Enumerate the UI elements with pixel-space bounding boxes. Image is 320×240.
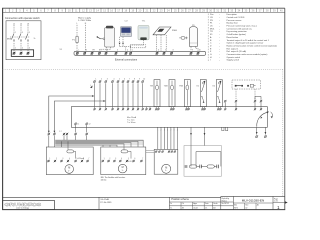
- svg-text:5: 5: [132, 50, 133, 52]
- svg-text:L: L: [78, 50, 79, 52]
- wire N (dashed mains drop): [85, 23, 87, 51]
- svg-text:Rev: Rev: [245, 204, 248, 206]
- module TM: [150, 80, 160, 107]
- svg-text:6: 6: [158, 50, 159, 52]
- pump unit box A: [46, 147, 93, 175]
- remote control MI301: [138, 20, 149, 40]
- bypass loop wire: [196, 152, 221, 167]
- fuse F1: [72, 37, 78, 43]
- controller output pin labels: [157, 130, 178, 132]
- terminal strip name X1: [60, 49, 63, 51]
- svg-text:2: 2: [15, 48, 16, 50]
- svg-text:No 96752: No 96752: [222, 203, 229, 205]
- wires contact box to controller (dashed): [236, 89, 255, 100]
- svg-text:CU: CU: [210, 17, 213, 19]
- svg-text:Ref. output 1: Ref. output 1: [227, 47, 240, 50]
- sensor cable terminals: [48, 131, 89, 135]
- mains in arrow node: [90, 85, 93, 88]
- thermal sensor capsule in box A: [67, 147, 76, 159]
- svg-text:5: 5: [128, 158, 129, 160]
- svg-text:11: 11: [77, 124, 79, 126]
- svg-text:5: 5: [29, 32, 30, 34]
- svg-text:Reset button: Reset button: [227, 36, 239, 39]
- svg-text:M: M: [68, 167, 70, 170]
- svg-text:04-02: 04-02: [193, 207, 197, 209]
- wires R100 to strip (dashed): [157, 35, 167, 51]
- position scheme cell: [169, 198, 233, 209]
- svg-text:Position scheme: Position scheme: [171, 198, 189, 201]
- jumper link: [255, 96, 261, 99]
- svg-text:2: 2: [109, 158, 110, 160]
- svg-text:9: 9: [192, 50, 193, 52]
- svg-text:A1: A1: [257, 203, 259, 206]
- controller top edge pin terminals: [93, 107, 262, 111]
- svg-text:M: M: [165, 166, 167, 169]
- svg-text:Connection with operate switch: Connection with operate switch: [5, 17, 40, 20]
- svg-text:3: 3: [62, 158, 63, 160]
- terminals on X1: [76, 52, 199, 55]
- module K1: [197, 80, 207, 107]
- module K2: [213, 80, 223, 107]
- title block frame: [2, 196, 285, 209]
- svg-text:Pressure sensor: Pressure sensor: [227, 19, 242, 22]
- project cell: [100, 199, 112, 204]
- svg-text:4: 4: [69, 158, 70, 160]
- terminals below contact box: [224, 100, 262, 107]
- svg-text:4: 4: [121, 158, 122, 160]
- svg-text:3: 3: [115, 158, 116, 160]
- svg-text:Description: Description: [227, 13, 237, 16]
- svg-text:4: 4: [22, 48, 23, 50]
- svg-text:12: 12: [89, 124, 91, 126]
- terminal row labels: [95, 79, 145, 81]
- output wires to pressure sensor terminals: [255, 128, 266, 138]
- svg-text:water technology: water technology: [16, 206, 29, 209]
- svg-text:2: 2: [56, 158, 57, 160]
- text: Max 20 mA settings: [127, 116, 137, 124]
- drops from terminals into band: [49, 135, 87, 147]
- svg-text:A3: A3: [213, 206, 215, 209]
- svg-text:M: M: [122, 166, 124, 169]
- cabinet boundary (dashed separator): [3, 68, 284, 70]
- level switch LS with tank: [97, 26, 115, 47]
- svg-text:1 2: 1 2: [59, 131, 62, 133]
- svg-text:6: 6: [134, 158, 135, 160]
- svg-text:Backup fuse: Backup fuse: [227, 23, 239, 25]
- vertical wires from input row to controller: [95, 83, 143, 106]
- svg-text:Date: Date: [205, 202, 209, 205]
- svg-text:Communication radio sensor mod: Communication radio sensor module (optio…: [227, 53, 268, 56]
- PE lugs under controller: [222, 127, 228, 130]
- page cell: [273, 198, 288, 210]
- svg-text:1~230V 50Hz: 1~230V 50Hz: [78, 20, 91, 22]
- link wires B to C: [146, 151, 154, 153]
- wire L (dashed mains drop): [76, 23, 78, 51]
- cable plug to sensor: [179, 37, 187, 40]
- svg-text:2: 2: [107, 50, 108, 52]
- svg-text:MOL: MOL: [7, 39, 13, 41]
- svg-text:3: 3: [22, 32, 23, 34]
- operate switch enclosure box: [6, 21, 41, 60]
- wire W1 (L branch to pump A): [48, 95, 95, 133]
- svg-text:4-20: 4-20: [128, 161, 132, 163]
- revision cell: [222, 198, 230, 205]
- wires sensor to strip (dashed): [191, 47, 198, 52]
- thermal sensor capsule in box B: [121, 147, 131, 159]
- svg-text:GRUNDFOS: GRUNDFOS: [5, 202, 42, 207]
- svg-text:1: 1: [15, 32, 16, 34]
- wire W2 (N branch to pump A): [54, 100, 106, 133]
- svg-text:Pressure switch (tap valve, ma: Pressure switch (tap valve, max.): [227, 25, 257, 28]
- svg-text:1:1: 1:1: [205, 207, 207, 209]
- svg-text:7: 7: [88, 158, 89, 160]
- box B terminals: [102, 160, 143, 163]
- cabinet boundary right (dashed vertical): [282, 69, 284, 197]
- terminal strip X1 (external connections): [74, 51, 206, 55]
- terminal block X0 of operate switch: [11, 50, 33, 57]
- svg-text:(30 m): (30 m): [101, 179, 107, 181]
- pressure sensor B1 (cylinder): [189, 25, 197, 47]
- svg-text:Terminal output 4 to 20 mA of: Terminal output 4 to 20 mA of the contro…: [227, 39, 270, 42]
- label: Mains supply 1~230V 50Hz: [78, 18, 92, 22]
- controller internal output terminals: [74, 123, 90, 133]
- control unit CU300: [120, 20, 131, 36]
- wire remote to strip (dashed): [130, 40, 146, 48]
- svg-text:Option 1: diaphragm tank again: Option 1: diaphragm tank against sensor: [227, 42, 264, 45]
- motor plug chain: [185, 165, 219, 169]
- note text NB: [101, 176, 125, 181]
- svg-text:MLV-011030-EN: MLV-011030-EN: [242, 198, 264, 202]
- svg-text:Control unit CU 301: Control unit CU 301: [227, 16, 246, 19]
- module TM3: [179, 80, 190, 107]
- box A terminals: [47, 160, 89, 163]
- motor M3: [162, 164, 171, 173]
- drawing frame right border: [284, 8, 286, 209]
- label: Connection with operate switch: [5, 17, 40, 20]
- svg-text:External connections: External connections: [115, 59, 138, 62]
- svg-text:1: 1: [104, 158, 105, 160]
- drawing frame left border: [2, 8, 4, 209]
- svg-text:1 of 1: 1 of 1: [274, 201, 278, 203]
- drawing frame bottom border: [2, 209, 285, 211]
- svg-text:Radio communication remote con: Radio communication remote control recei…: [227, 45, 278, 48]
- remote control R100: [153, 27, 178, 35]
- svg-text:Ti = 30sec: Ti = 30sec: [127, 122, 136, 124]
- svg-text:TM: TM: [150, 86, 153, 88]
- svg-text:Connection with operate sw.: Connection with operate sw.: [227, 27, 253, 30]
- wire into plug chain: [190, 146, 192, 167]
- wires CU to strip (dashed with arrows): [120, 37, 131, 51]
- pump unit box C: [154, 149, 178, 174]
- svg-text:Ch: Ch: [182, 203, 184, 205]
- legend list: [208, 13, 277, 62]
- module TM2: [164, 80, 175, 107]
- svg-text:4: 4: [127, 50, 128, 52]
- screened cable bundle: [55, 140, 143, 147]
- svg-text:Appr: Appr: [193, 202, 197, 205]
- wires to drop cable D: [190, 127, 205, 145]
- svg-text:On/off button (option): On/off button (option): [227, 33, 247, 36]
- terminals in X0: [13, 52, 30, 55]
- svg-text:Pos: Pos: [210, 14, 214, 16]
- zone reference strip: [2, 8, 285, 12]
- svg-text:02: 02: [245, 208, 247, 210]
- motor M2: [118, 164, 127, 173]
- logo box: [3, 201, 55, 210]
- wires to motor box C: [158, 127, 178, 149]
- svg-text:3: 3: [117, 50, 118, 52]
- wire from level switch to strip (dashed): [99, 47, 110, 51]
- svg-text:PO No 1389: PO No 1389: [100, 202, 112, 204]
- svg-text:7: 7: [165, 50, 166, 52]
- svg-text:Operate switch: Operate switch: [227, 56, 241, 59]
- svg-text:TL: TL: [170, 207, 172, 209]
- svg-text:1: 1: [49, 158, 50, 160]
- svg-text:Scale: Scale: [213, 203, 217, 205]
- terminal number labels on X1: [78, 50, 200, 52]
- external contact box (dashed): [232, 80, 261, 89]
- rotary selector arc: [257, 111, 273, 126]
- label: External connections: [115, 59, 138, 62]
- svg-text:7: 7: [142, 158, 143, 160]
- drop cable kit box D: [184, 146, 221, 177]
- svg-text:6: 6: [29, 48, 30, 50]
- svg-text:10: 10: [143, 79, 145, 81]
- controller unit box (CU301 internals): [71, 107, 267, 128]
- svg-text:Dry-running protection: Dry-running protection: [227, 30, 247, 33]
- svg-text:Ref. output 4 (20 mA): Ref. output 4 (20 mA): [227, 50, 247, 53]
- pole pin labels: [15, 32, 30, 50]
- pump unit box B: [101, 147, 146, 175]
- svg-text:1: 1: [101, 50, 102, 52]
- terminals (controller input row): [93, 80, 144, 83]
- svg-text:10: 10: [199, 50, 201, 52]
- svg-text:R100: R100: [172, 30, 178, 32]
- drawing number cell: [233, 198, 273, 209]
- box C terminals: [155, 150, 176, 152]
- svg-text:8: 8: [173, 50, 174, 52]
- motor M1: [65, 165, 74, 174]
- svg-text:4-20mA: 4-20mA: [78, 157, 85, 160]
- switch S1 (3-pole operate switch MOL): [7, 23, 37, 49]
- svg-text:9675: 9675: [234, 208, 238, 210]
- svg-text:Supply switch: Supply switch: [227, 59, 240, 62]
